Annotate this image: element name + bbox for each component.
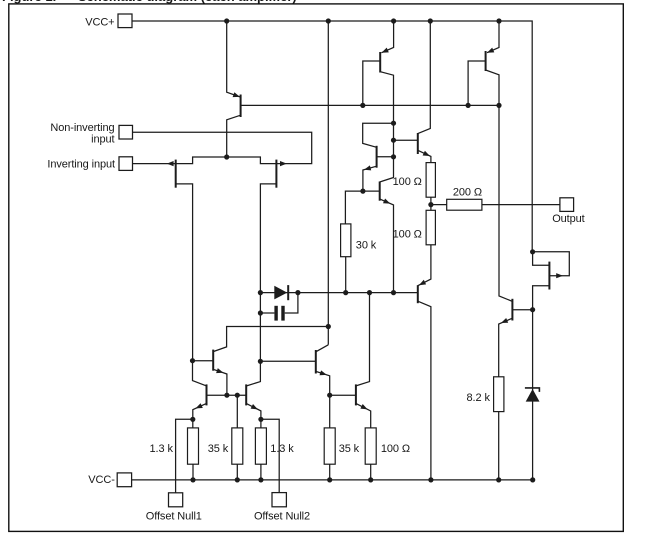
capacitor C1 [260,293,298,321]
node Q9Q10 base-coll [190,358,195,363]
transistor Q14 (PNP output driver bottom) [418,245,431,480]
diode D2 [525,388,540,402]
node 1.3kA top [190,417,195,422]
resistor 35k right [324,428,335,464]
svg-text:1.3 k: 1.3 k [270,443,294,455]
node rail- 100C [368,477,373,482]
JFET J3 (output stage current source) [533,252,570,310]
wire 8.2k bottom [498,412,500,480]
transistor Q11 (NPN) [246,384,261,419]
node y326-mid [326,324,331,329]
node rail-Q4 [428,18,433,23]
node y395-35k [235,393,240,398]
transistor Q10 (NPN) [193,350,227,396]
svg-text:100 Ω: 100 Ω [381,443,410,455]
svg-text:100 Ω: 100 Ω [393,229,422,241]
JFET J2 (non-inverting input) [246,160,287,386]
node midbus-cap [295,290,300,295]
diode D1 [274,285,288,300]
Offset Null2 pad [272,493,286,507]
resistor 30k [341,224,351,257]
wire input loop: inverting gate, common source line, non-inverting gate [133,132,312,163]
wire 1.3kB leads [260,419,262,480]
wire 35k left leads [236,395,238,480]
Inverting input pad [119,157,133,171]
transistor Q13 (NPN) [330,293,371,428]
svg-text:35 k: 35 k [208,443,229,455]
wire VCC- rail [132,479,533,481]
transistor Q4 (NPN output driver top) [394,21,431,163]
node midbus-left [258,290,263,295]
svg-text:Output: Output [552,213,584,225]
node output-junction [428,202,433,207]
node y395-Q10 [224,393,229,398]
node 1.3kB top [258,417,263,422]
node rail- Q14 [428,477,433,482]
node J3 top [530,249,535,254]
transistor Q3 (PNP mirror) [468,21,499,105]
wire 35k right bottom [329,464,331,480]
VCC- pad [117,473,131,487]
wire between 100 Ohm resistors [430,197,432,210]
JFET J1 (inverting input) [167,160,193,361]
node JFET common sources [224,154,229,159]
resistor 100 Ohm bottom [365,428,376,464]
node midbus-Q13 [367,290,372,295]
wire output node to 200 Ohm [431,204,447,206]
resistor 1.3k A [188,428,199,464]
transistor Q2 (PNP mirror) [363,21,394,123]
resistor 8.2k [494,377,504,412]
wire 1.3kA top [192,419,194,428]
node x393-a [391,121,396,126]
wire 30k bottom [345,257,347,293]
node bus-Q2base [360,103,365,108]
transistor Q9 (NPN) [193,361,207,420]
node Q6 base [360,189,365,194]
wire offset null1 branch [176,419,193,493]
node midbus-Q6 [391,290,396,295]
transistor Q1 (PNP tail current source) [227,21,241,157]
transistor Q8 (NPN output) [499,105,533,376]
node rail-Q3 [496,18,501,23]
svg-text:30 k: 30 k [356,240,377,252]
svg-text:VCC+: VCC+ [85,16,114,28]
node rail- 8.2k [496,477,501,482]
wire offset null2 branch [261,419,279,492]
Output pad [560,198,574,212]
resistor 1.3k B [255,428,266,464]
transistor Q12 (NPN) [260,345,329,428]
node rail-Q1 [224,18,229,23]
wire collector line y326 [213,327,328,352]
svg-text:100 Ω: 100 Ω [393,176,422,188]
svg-text:1.3 k: 1.3 k [150,443,174,455]
wire base line y395 [207,394,247,396]
wire 1.3kA bottom [192,464,194,480]
wire base bus [241,104,499,106]
svg-text:Offset Null2: Offset Null2 [254,511,310,523]
node rail- 1.3kA [190,477,195,482]
svg-text:Non-inverting: Non-inverting [50,122,114,134]
transistor Q5 (NPN) [363,123,394,191]
Non-inverting input pad [119,125,133,139]
wire VCC+ rail and right-side drop [132,21,532,252]
node rail-mid [326,18,331,23]
svg-text:input: input [91,134,114,146]
node rail- D2 [530,477,535,482]
node rail- 35kR [327,477,332,482]
node bus-Q3coll [496,103,501,108]
node bus-Q3base [466,103,471,108]
wire right column down [532,310,534,480]
svg-text:VCC-: VCC- [88,474,115,486]
wire Q2-collector chain / Q6 collector [380,123,394,182]
resistor 100 Ohm lower [426,210,435,245]
svg-text:200 Ω: 200 Ω [453,186,482,198]
node midbus-30k [343,290,348,295]
node Q12 base tap [258,359,263,364]
VCC+ pad [118,14,132,28]
wire mid bus y292 [260,292,417,294]
resistor 200 Ohm [447,199,482,210]
node cap-left [258,310,263,315]
node x393-c [391,154,396,159]
svg-text:Inverting input: Inverting input [47,158,115,170]
node rail-Q2 [391,18,396,23]
node Q8 base [530,307,535,312]
node x393-b [391,138,396,143]
resistor 35k left [232,428,243,464]
node rail- 1.3kB [258,477,263,482]
svg-text:Offset Null1: Offset Null1 [146,511,202,523]
resistor 100 Ohm upper [426,163,435,198]
svg-text:8.2 k: 8.2 k [467,392,491,404]
wire mid vertical from rail to Q12 [327,21,329,345]
wire 100 Ohm bottom lead [370,464,372,480]
wire 200 Ohm to output pad [482,204,560,206]
Offset Null1 pad [169,493,183,507]
node Q12 emitter [327,393,332,398]
node rail- 35kL [235,477,240,482]
transistor Q6 (NPN) [345,182,393,293]
svg-text:35 k: 35 k [339,443,360,455]
